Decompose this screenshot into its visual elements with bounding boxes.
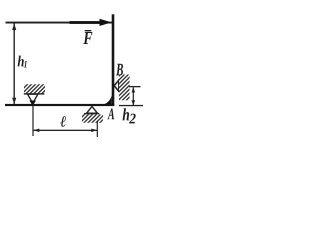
force F arrow bbox=[70, 21, 101, 24]
label l bbox=[60, 116, 66, 126]
label B bbox=[116, 64, 123, 76]
h2 top tick at B level bbox=[129, 86, 141, 87]
wire top horizontal line (line of action of F) bbox=[6, 22, 113, 24]
support A triangle (below beam) bbox=[87, 106, 98, 113]
bottom beam bbox=[5, 104, 114, 106]
left support pin blob on beam bbox=[30, 101, 36, 107]
support B triangle (roller on post, apex left) bbox=[114, 80, 119, 91]
hatching right of support B wall bbox=[119, 75, 130, 101]
extension line below support A bbox=[97, 121, 98, 137]
label F (with overbar) bbox=[83, 32, 92, 44]
support B wall line bbox=[118, 79, 119, 92]
hatching below support A bbox=[82, 114, 103, 122]
label h1 bbox=[18, 56, 24, 67]
label h2 bbox=[123, 108, 130, 120]
right vertical post bbox=[112, 14, 115, 105]
label A bbox=[107, 109, 114, 120]
extension line below left support bbox=[32, 106, 33, 136]
dimension line h1 bbox=[14, 24, 15, 105]
dimension line l bbox=[34, 130, 98, 131]
h2 bottom extension line at beam level bbox=[119, 105, 143, 106]
ceiling line of left support bbox=[24, 93, 45, 94]
left support triangle (pin hanging from ceiling) bbox=[28, 94, 38, 103]
corner fillet at post base bbox=[101, 95, 112, 105]
hatching above ceiling line (left support ground) bbox=[24, 84, 45, 93]
dimension line h2 bbox=[133, 87, 134, 105]
support A base line bbox=[84, 113, 99, 115]
